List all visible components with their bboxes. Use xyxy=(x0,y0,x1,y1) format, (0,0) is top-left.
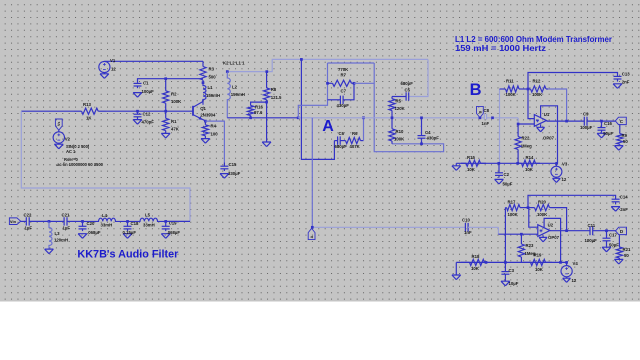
svg-text:1nF: 1nF xyxy=(464,230,472,235)
capacitor C12 xyxy=(134,111,142,119)
node C19 top xyxy=(164,220,167,223)
resistor R7 xyxy=(328,80,355,86)
svg-text:500: 500 xyxy=(209,75,217,80)
svg-text:50: 50 xyxy=(623,139,628,144)
svg-text:R4: R4 xyxy=(211,124,217,129)
node R7 right xyxy=(353,82,356,85)
svg-text:100K: 100K xyxy=(537,212,548,217)
label C22 xyxy=(24,212,33,230)
capacitor C16 xyxy=(598,121,606,133)
svg-text:R5: R5 xyxy=(396,99,402,104)
op-amp U1 xyxy=(534,115,546,127)
svg-text:.ac lin 10000000 50 3500: .ac lin 10000000 50 3500 xyxy=(56,162,104,167)
svg-text:R18: R18 xyxy=(472,254,480,259)
svg-text:K2 L2 L1 1: K2 L2 L1 1 xyxy=(223,60,245,65)
rail stage B xyxy=(499,89,501,163)
label R21 xyxy=(623,247,631,258)
output port C xyxy=(615,117,626,124)
svg-text:121.5: 121.5 xyxy=(271,95,282,100)
svg-text:12: 12 xyxy=(572,278,577,283)
svg-text:R19: R19 xyxy=(534,253,542,258)
label U1 xyxy=(543,112,555,141)
node R23 top xyxy=(520,233,523,236)
node R22 bottom xyxy=(516,162,519,165)
wire U1 inner box xyxy=(541,106,558,164)
capacitor C8 xyxy=(484,114,518,120)
net flag B on C8 xyxy=(477,106,484,117)
capacitor C6 xyxy=(334,136,340,144)
label V2 xyxy=(65,137,71,142)
label R1 xyxy=(171,119,180,132)
svg-text:100µF: 100µF xyxy=(585,238,598,243)
label C1 xyxy=(142,80,155,94)
capacitor C3 xyxy=(501,262,509,281)
svg-text:C12: C12 xyxy=(143,112,151,117)
label R18 xyxy=(471,254,480,271)
svg-text:159mH: 159mH xyxy=(206,93,220,98)
label C14 xyxy=(620,195,628,213)
svg-text:Vs: Vs xyxy=(57,122,61,126)
svg-text:R7: R7 xyxy=(341,73,347,78)
input port Vin xyxy=(9,218,20,225)
svg-text:100K: 100K xyxy=(171,99,182,104)
resistor R8 xyxy=(264,72,270,103)
svg-text:C16: C16 xyxy=(604,121,612,126)
label V1 xyxy=(110,58,116,71)
node base-C12 xyxy=(136,110,139,113)
ground below C16 xyxy=(597,133,606,138)
svg-text:V4: V4 xyxy=(573,261,579,266)
rail stage2 xyxy=(504,208,506,263)
wire R7 box top xyxy=(328,62,375,64)
ground below V2 xyxy=(54,144,63,149)
svg-text:10K: 10K xyxy=(467,167,476,172)
svg-text:R8: R8 xyxy=(271,87,277,92)
svg-text:470pF: 470pF xyxy=(142,120,155,125)
op-amp U2 xyxy=(538,225,550,237)
svg-text:C2: C2 xyxy=(504,172,510,177)
node C20 top xyxy=(81,220,84,223)
ground below R9 xyxy=(614,146,623,151)
node R5 bottom xyxy=(391,116,394,119)
svg-text:V2: V2 xyxy=(65,137,71,142)
svg-text:R6: R6 xyxy=(352,131,358,136)
svg-text:.068µF: .068µF xyxy=(87,230,101,235)
resistor R15 xyxy=(461,160,486,166)
svg-text:L2: L2 xyxy=(232,84,238,89)
inductor L5 xyxy=(128,218,166,221)
capacitor C17 xyxy=(603,231,611,247)
capacitor C10 xyxy=(465,223,498,232)
ground below C2 xyxy=(495,179,504,184)
label L1 xyxy=(206,85,220,98)
wire C13 loop xyxy=(528,73,618,90)
ground at R15 xyxy=(452,163,461,170)
capacitor C1 xyxy=(134,83,142,88)
svg-text:1nF: 1nF xyxy=(482,121,490,126)
ground below C17 xyxy=(602,247,611,252)
svg-text:R13: R13 xyxy=(83,102,91,107)
node A-stub xyxy=(297,116,300,119)
svg-text:1µF: 1µF xyxy=(25,225,33,230)
wire C21 span xyxy=(49,220,64,222)
svg-text:AC 1: AC 1 xyxy=(66,149,76,154)
resistor R13 xyxy=(74,108,106,114)
capacitor C18 xyxy=(124,221,132,231)
svg-text:C11: C11 xyxy=(588,223,596,228)
node R11-R12 xyxy=(527,88,530,91)
svg-text:C15: C15 xyxy=(229,162,237,167)
voltage source V3 xyxy=(551,163,562,178)
wire V1 to R3 top xyxy=(104,60,203,62)
svg-text:KK7B's Audio Filter: KK7B's Audio Filter xyxy=(77,249,179,261)
wire transformer top xyxy=(227,59,428,71)
wire base xyxy=(21,110,193,112)
svg-text:50µF: 50µF xyxy=(503,182,513,187)
node R17-R20 xyxy=(527,206,530,209)
label Q1 xyxy=(200,106,216,118)
ground below C18 xyxy=(123,234,132,239)
rail stage A xyxy=(301,59,334,159)
wire R12 feedback xyxy=(548,89,567,121)
capacitor C4 xyxy=(418,118,426,144)
svg-text:159 mH = 1000 Hertz: 159 mH = 1000 Hertz xyxy=(455,43,546,53)
ground below L3 xyxy=(45,249,54,254)
ground below C19 xyxy=(161,234,170,239)
label R17 xyxy=(508,199,519,217)
label C3 xyxy=(509,268,519,286)
svg-text:A: A xyxy=(322,118,334,135)
svg-text:97.6: 97.6 xyxy=(254,110,263,115)
svg-text:Vin: Vin xyxy=(10,219,17,224)
svg-text:100K: 100K xyxy=(394,136,405,141)
resistor R19 xyxy=(524,259,552,265)
wire stage A mid xyxy=(312,117,484,119)
resistor R5 xyxy=(389,97,395,118)
label R10 xyxy=(394,129,405,141)
svg-text:R2: R2 xyxy=(171,91,177,96)
node R8 top xyxy=(265,70,268,73)
capacitor C9 xyxy=(584,117,615,126)
label C20 xyxy=(87,221,101,235)
resistor R22 xyxy=(515,124,521,163)
svg-text:1Meg: 1Meg xyxy=(521,144,532,149)
svg-text:R9: R9 xyxy=(622,133,628,138)
label R13 xyxy=(83,102,92,121)
svg-text:1K: 1K xyxy=(86,115,92,120)
label C7 xyxy=(337,89,350,108)
svg-text:R20: R20 xyxy=(538,200,546,205)
svg-text:10K: 10K xyxy=(525,167,534,172)
resistor R14 xyxy=(518,160,540,166)
label R9 xyxy=(622,133,629,144)
svg-text:B: B xyxy=(470,81,482,99)
wire R8 to ground rail xyxy=(266,102,268,142)
voltage source V4 xyxy=(561,262,572,277)
voltage source V1 xyxy=(99,61,110,73)
wire ladder xyxy=(21,220,27,222)
label C18 xyxy=(123,221,139,235)
ground below V4 xyxy=(563,278,571,282)
svg-text:100µF: 100µF xyxy=(142,89,155,94)
label K2 xyxy=(223,60,245,65)
resistor R18 xyxy=(461,259,486,265)
svg-text:12: 12 xyxy=(111,67,116,72)
svg-text:100: 100 xyxy=(211,132,219,137)
svg-text:C8: C8 xyxy=(484,108,490,113)
svg-text:U2: U2 xyxy=(548,223,554,228)
wire U2 output xyxy=(550,230,590,232)
ground below C14 xyxy=(611,207,620,212)
label R22 xyxy=(521,136,532,149)
resistor R21 xyxy=(616,235,622,259)
label C12 xyxy=(142,112,155,125)
resistor R11 xyxy=(505,86,529,92)
label R4 xyxy=(211,124,219,137)
wire U2 plus input xyxy=(528,208,538,228)
node U1 out xyxy=(565,120,568,123)
svg-text:C3: C3 xyxy=(509,268,515,273)
label R16 xyxy=(254,104,263,115)
svg-text:Q1: Q1 xyxy=(200,106,206,111)
title KK7B xyxy=(77,249,179,261)
wire ladder end xyxy=(166,220,190,222)
svg-text:.068µF: .068µF xyxy=(167,230,181,235)
label R14 xyxy=(525,155,534,172)
svg-text:R15: R15 xyxy=(467,155,475,160)
svg-text:2nF: 2nF xyxy=(620,207,628,212)
wire stage2 feed xyxy=(312,118,465,228)
label R8 xyxy=(271,87,282,100)
resistor R9 xyxy=(617,124,623,145)
svg-text:C10: C10 xyxy=(462,218,470,223)
svg-text:C1: C1 xyxy=(143,80,149,85)
label C2 xyxy=(503,172,513,187)
label R15 xyxy=(467,155,476,172)
svg-text:2nF: 2nF xyxy=(622,79,630,84)
big letter B xyxy=(470,81,482,99)
resistor R2 xyxy=(163,79,169,112)
wire C1 to R3 node xyxy=(138,79,204,83)
label C8 xyxy=(482,108,490,126)
label L4 xyxy=(101,213,113,228)
svg-text:430pF: 430pF xyxy=(427,135,440,140)
capacitor C19 xyxy=(162,221,170,231)
label C4 xyxy=(425,130,439,140)
node V3 top xyxy=(555,162,558,165)
svg-text:C22: C22 xyxy=(24,212,32,217)
wire R11 left xyxy=(500,88,505,90)
label C16 xyxy=(603,121,613,136)
label L2 xyxy=(231,84,245,97)
label R12 xyxy=(532,78,543,97)
svg-text:C6: C6 xyxy=(339,131,345,136)
capacitor C13 xyxy=(614,76,622,81)
node R16 bottom xyxy=(249,116,252,119)
svg-text:OP07: OP07 xyxy=(548,235,560,240)
svg-text:OP07: OP07 xyxy=(543,136,555,141)
svg-text:C5: C5 xyxy=(405,88,411,93)
node L3 top xyxy=(48,220,51,223)
svg-text:120mH: 120mH xyxy=(54,238,68,243)
capacitor C14 xyxy=(612,199,620,204)
svg-text:A: A xyxy=(310,235,314,238)
svg-text:100K: 100K xyxy=(508,212,519,217)
node C8 out xyxy=(491,116,494,119)
svg-text:L1: L1 xyxy=(208,85,214,90)
resistor R20 xyxy=(528,205,552,211)
inductor L4 xyxy=(83,218,128,221)
svg-text:330µF: 330µF xyxy=(228,171,241,176)
label C21 xyxy=(62,212,71,230)
svg-text:R10: R10 xyxy=(396,129,404,134)
wire C5 riser xyxy=(414,59,428,96)
wire emitter to C15 xyxy=(205,121,224,162)
ground below C3 xyxy=(501,281,510,286)
svg-text:10K: 10K xyxy=(535,267,544,272)
inductor L2 xyxy=(227,72,230,118)
label R5 xyxy=(395,99,406,112)
label C11 xyxy=(585,223,598,243)
node R22 top xyxy=(517,123,520,126)
resistor R1 xyxy=(163,111,169,133)
label C17 xyxy=(609,232,619,247)
label R11 xyxy=(506,78,517,97)
svg-text:C13: C13 xyxy=(622,71,630,76)
svg-text:33mH: 33mH xyxy=(101,223,113,228)
label R23 xyxy=(525,243,536,256)
svg-text:47K: 47K xyxy=(171,127,180,132)
ground below V3 xyxy=(553,178,561,182)
svg-text:50µF: 50µF xyxy=(603,131,613,136)
svg-text:L3: L3 xyxy=(55,231,61,236)
node flag B xyxy=(479,116,482,119)
node base-R2 xyxy=(164,110,167,113)
svg-text:C14: C14 xyxy=(620,195,628,200)
svg-text:L4: L4 xyxy=(102,213,108,218)
ground below U1 xyxy=(537,124,545,132)
ground below R21 xyxy=(614,259,623,264)
label U2 xyxy=(548,223,560,240)
node rail-bottom xyxy=(497,162,500,165)
ground below C13 xyxy=(613,84,622,89)
resistor R16 xyxy=(248,105,254,118)
wire R8 to R16 xyxy=(251,102,267,105)
node C17 top xyxy=(605,229,608,232)
ground below R4 xyxy=(201,139,210,144)
resistor R23 xyxy=(518,234,524,262)
wire C14 loop xyxy=(528,195,616,207)
svg-text:2N3904: 2N3904 xyxy=(200,113,216,118)
ground below C12 xyxy=(133,120,142,125)
wire R6 riser xyxy=(363,118,365,141)
node C1-R2 xyxy=(164,77,167,80)
svg-text:680pF: 680pF xyxy=(401,81,414,86)
svg-text:0.15µF: 0.15µF xyxy=(123,230,137,235)
svg-text:V1: V1 xyxy=(110,58,116,63)
svg-text:C4: C4 xyxy=(425,130,431,135)
svg-text:770K: 770K xyxy=(338,67,349,72)
svg-text:430pF: 430pF xyxy=(337,103,350,108)
node stage2 corner xyxy=(311,226,314,229)
svg-text:159mH: 159mH xyxy=(231,92,245,97)
svg-text:V3: V3 xyxy=(562,161,568,166)
svg-text:U1: U1 xyxy=(544,112,550,117)
node C4 top xyxy=(420,116,423,119)
svg-text:100K: 100K xyxy=(506,92,517,97)
svg-text:1µF: 1µF xyxy=(63,225,71,230)
ground below C15 xyxy=(220,174,229,179)
label R19 xyxy=(534,253,544,272)
svg-text:10K: 10K xyxy=(471,266,480,271)
label C9 xyxy=(580,111,593,130)
label C13 xyxy=(622,71,630,84)
capacitor C21 xyxy=(64,217,82,225)
label R20 xyxy=(537,200,548,218)
svg-text:407K: 407K xyxy=(350,144,361,149)
resistor R4 xyxy=(202,121,208,138)
wire U1 minus input xyxy=(528,89,534,119)
svg-text:100K: 100K xyxy=(532,92,543,97)
capacitor C15 xyxy=(220,163,228,172)
node emitter xyxy=(204,120,207,123)
svg-text:120K: 120K xyxy=(395,106,406,111)
ground below V1 xyxy=(100,74,109,79)
svg-text:L5: L5 xyxy=(145,212,151,217)
capacitor C7 xyxy=(328,83,355,104)
ground below R8 rail xyxy=(262,142,271,147)
capacitor C22 xyxy=(26,217,49,225)
svg-text:R22: R22 xyxy=(522,136,530,141)
label C6 xyxy=(335,131,348,149)
node C16 top xyxy=(600,120,603,123)
wire secondary bottom xyxy=(227,117,298,119)
ground below U2 xyxy=(539,235,547,242)
wire R7 to bottom loop xyxy=(354,63,444,152)
capacitor C20 xyxy=(79,221,87,231)
big letter A xyxy=(322,118,334,135)
svg-text:R16: R16 xyxy=(255,104,263,109)
node rail2-bottom xyxy=(504,261,507,264)
svg-text:C17: C17 xyxy=(609,232,617,237)
node C4 bottom xyxy=(420,142,423,145)
node box2 bottom xyxy=(559,261,562,264)
inductor L3 xyxy=(49,221,52,249)
label C5 xyxy=(401,81,414,92)
node R8 bottom xyxy=(265,101,268,104)
node rail A top xyxy=(300,58,303,61)
ground at R18 xyxy=(452,262,461,279)
label L5 xyxy=(143,212,155,227)
net flag Vs on V2 xyxy=(55,119,62,132)
svg-text:C21: C21 xyxy=(62,212,70,217)
ground below C20 xyxy=(78,234,87,239)
wire U2 inner box xyxy=(544,218,561,262)
voltage source V2 xyxy=(53,132,64,144)
resistor R12 xyxy=(528,86,548,92)
svg-text:10µF: 10µF xyxy=(509,281,519,286)
node R18 right xyxy=(485,261,488,264)
svg-text:12: 12 xyxy=(562,177,567,182)
spice text V2 xyxy=(56,144,104,167)
wire R20 feedback xyxy=(552,208,567,231)
label L3 xyxy=(54,231,68,243)
note transformer xyxy=(455,34,613,44)
wire U1 output xyxy=(547,120,585,122)
svg-text:R3: R3 xyxy=(209,67,215,72)
svg-text:C9: C9 xyxy=(583,111,589,116)
wire B input jog xyxy=(518,118,534,124)
